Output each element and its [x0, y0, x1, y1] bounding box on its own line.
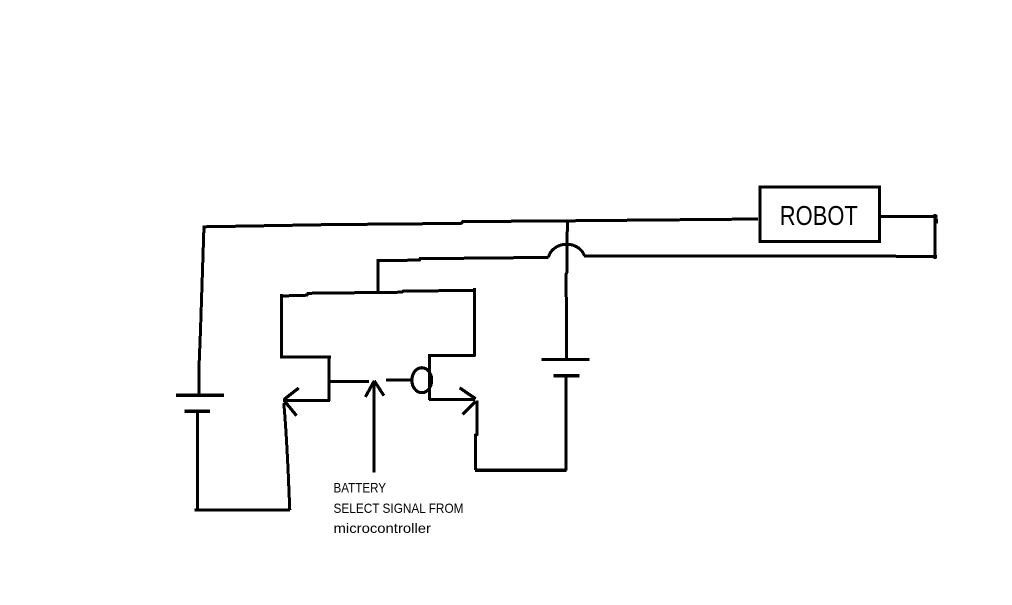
transistor Q1 bar [327, 356, 330, 401]
transistor Q2 source line with arrow [429, 398, 475, 401]
ROBOT box U1 [760, 187, 880, 242]
svg-text:microcontroller: microcontroller [334, 520, 432, 536]
wire: right leg horizontal [428, 354, 476, 357]
wire: box left vertical [280, 294, 283, 357]
wire: left transistor source to bottom return (wavy) [284, 403, 290, 510]
transistor Q2 gate bubble [412, 368, 432, 393]
transistor Q2 bar (right) [428, 356, 431, 400]
battery B1 long plate (+) [176, 394, 224, 397]
wire: stub from drain bus up to signal wire [377, 260, 380, 294]
wire: right battery negative lead [564, 376, 567, 471]
transistor Q1 source line with arrow (left) [283, 399, 330, 402]
svg-text:ROBOT: ROBOT [780, 200, 858, 231]
arrow: battery select signal (head) [365, 381, 374, 397]
wire hop over battery lead [549, 244, 585, 257]
wire: left battery negative lead [196, 412, 199, 511]
svg-text:BATTERY: BATTERY [334, 480, 387, 496]
wire: bottom left return [195, 508, 291, 511]
battery B2 short plate (-) [554, 374, 580, 377]
battery B1 short plate (-) [185, 410, 211, 413]
wire: top bus from left battery to ROBOT left pin [204, 219, 758, 227]
wire: ROBOT right pin lead [880, 215, 938, 218]
wire: bottom right horizontal [475, 469, 566, 472]
wire: left battery positive lead (vertical) [199, 226, 204, 395]
wire: box top (common drain bus) [281, 290, 475, 296]
wire: right return vertical [933, 214, 936, 259]
wire: right transistor down lead [475, 401, 477, 471]
wire: left leg horizontal [280, 355, 331, 358]
wire: right battery positive lead from top bus [566, 221, 567, 359]
wire: signal bus right portion to return vertical [584, 254, 937, 257]
wire: box right vertical [473, 288, 476, 356]
arrow: battery select signal (shaft) [373, 382, 376, 473]
wire: signal bus left portion [377, 257, 549, 260]
transistor Q2 gate lead [386, 378, 412, 381]
battery B2 long plate (+) [542, 358, 590, 361]
svg-text:SELECT SIGNAL FROM: SELECT SIGNAL FROM [334, 500, 464, 516]
transistor Q1 gate lead [330, 380, 369, 383]
